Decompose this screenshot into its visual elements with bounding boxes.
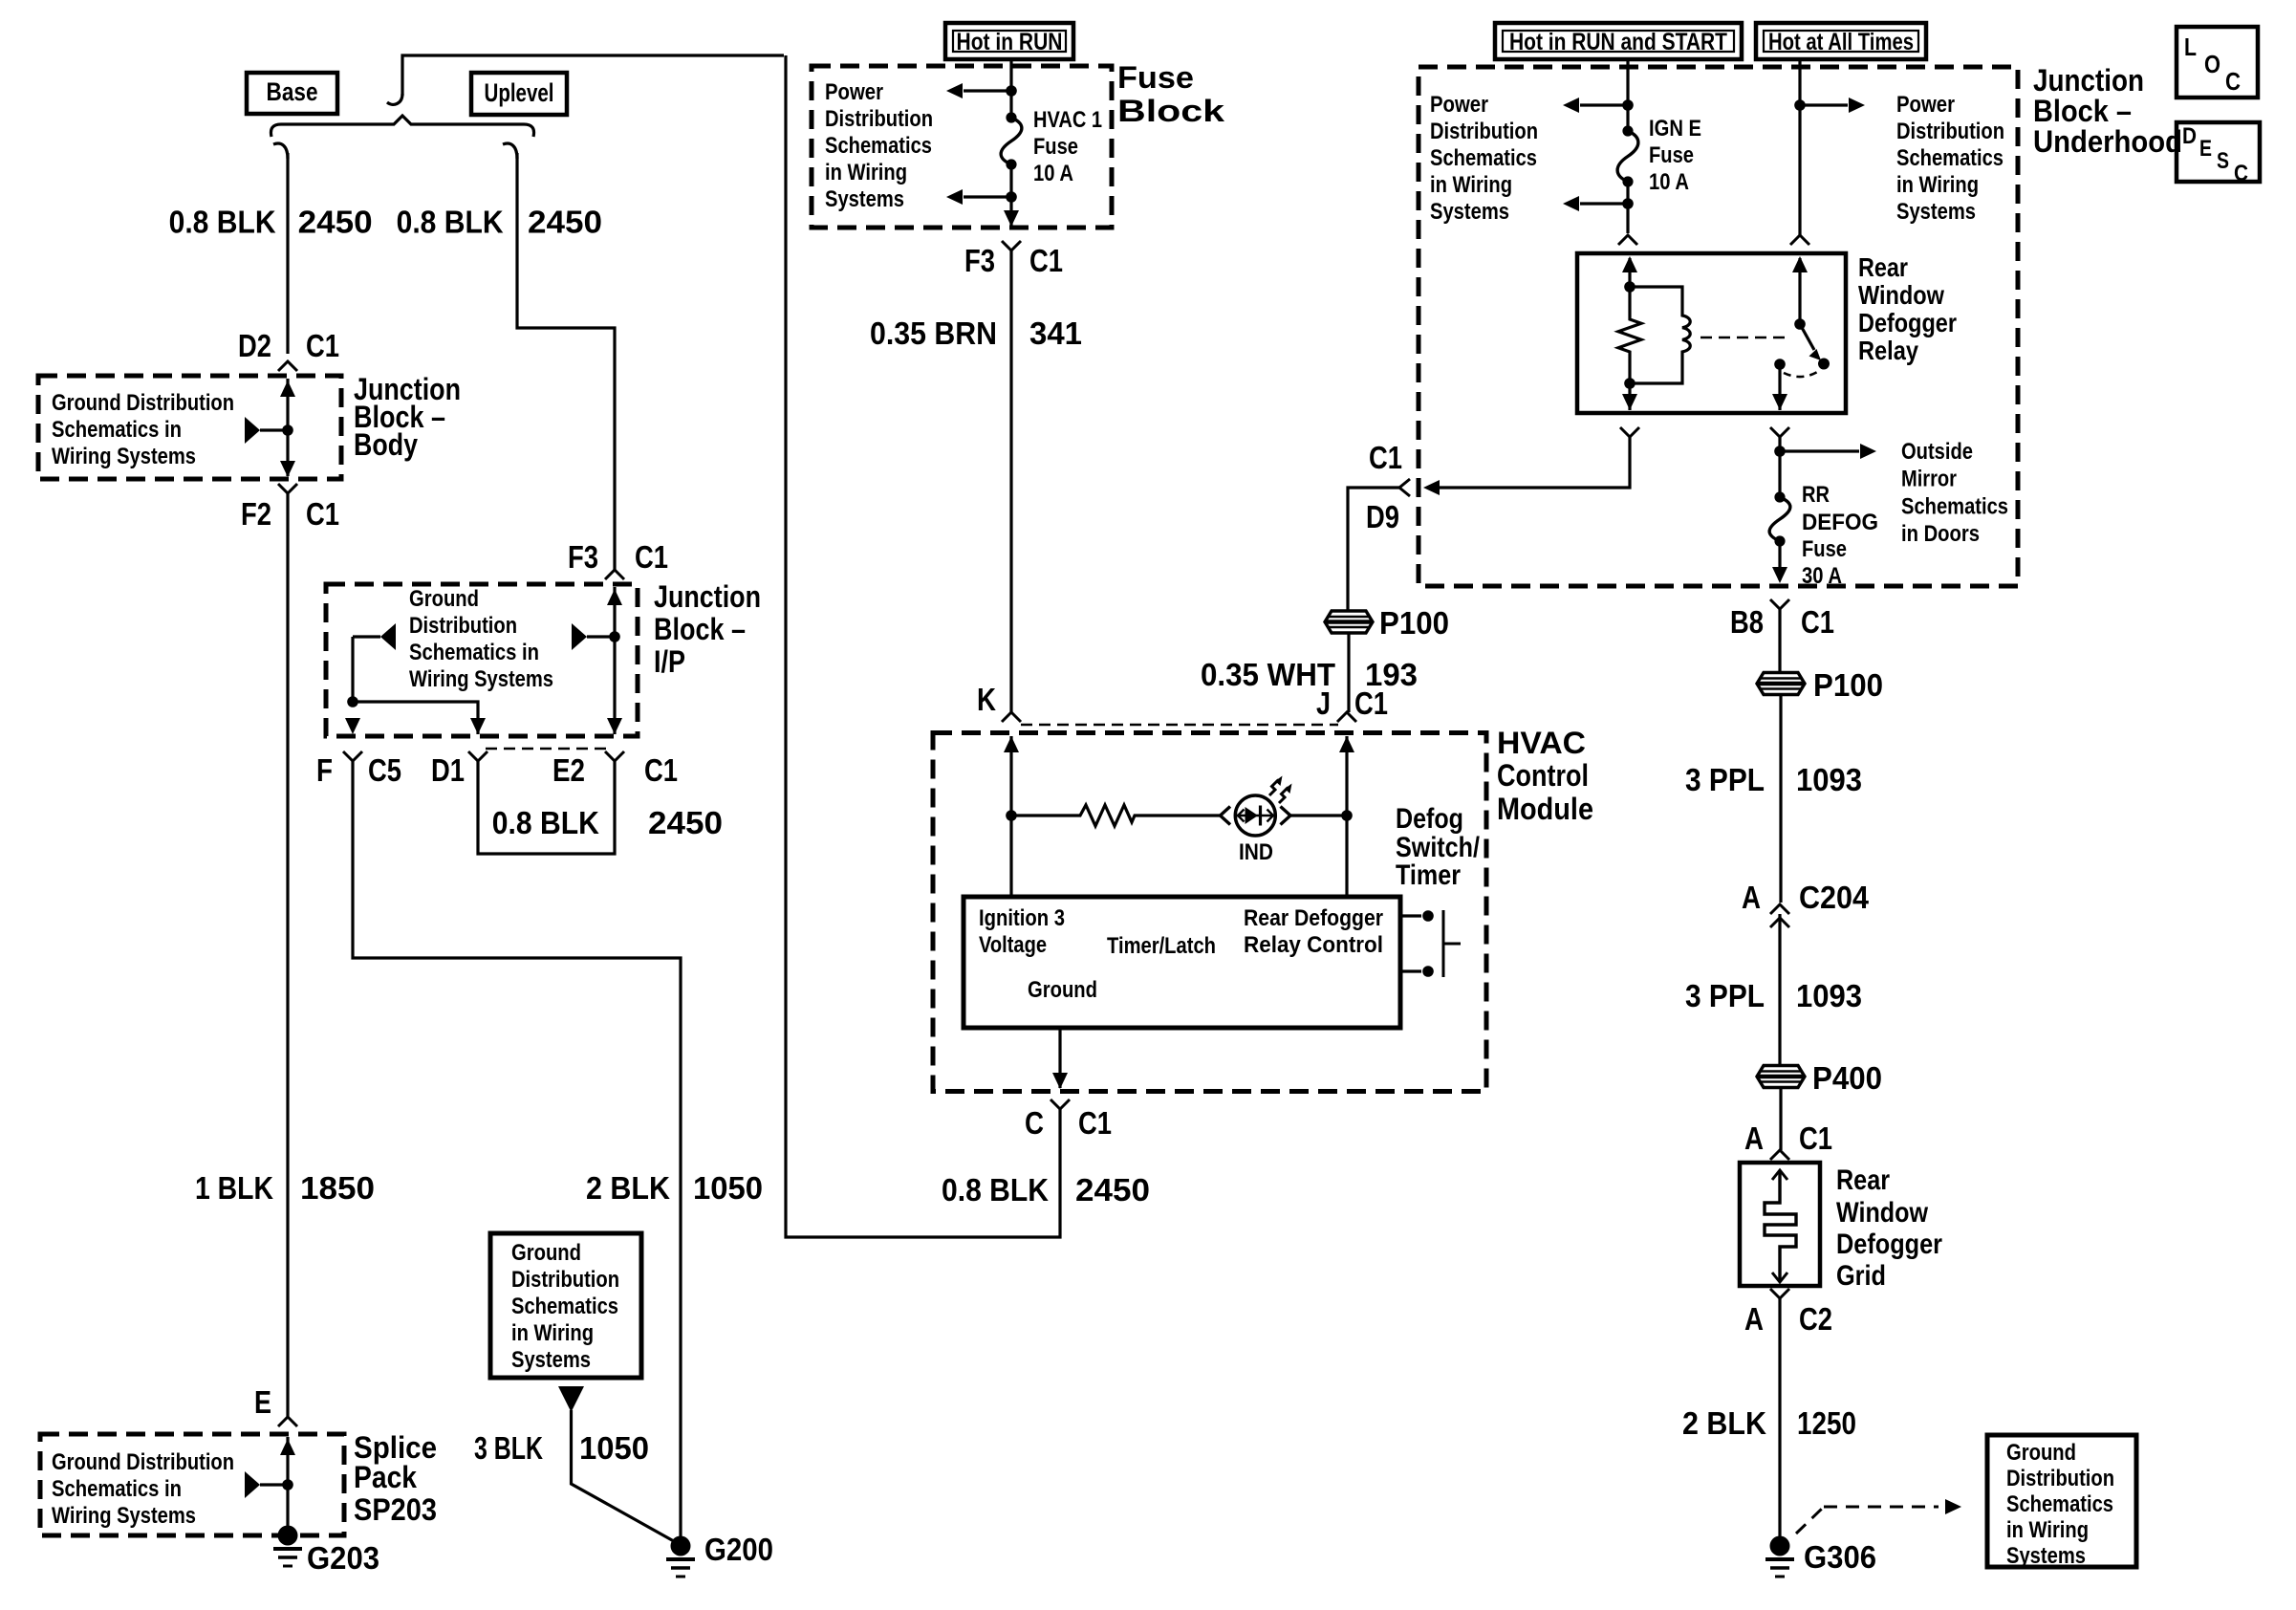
text: Power Distribution Schematics in Wiring Systems (fuse block) <box>825 79 933 212</box>
wire label 2 BLK (grid ground) <box>1682 1405 1766 1441</box>
junction dot HVAC left <box>1006 810 1017 821</box>
label Defog Switch/ Timer <box>1396 803 1481 891</box>
relay switch pivot dot <box>1794 318 1806 330</box>
svg-text:Schematics in: Schematics in <box>409 640 539 665</box>
triangle tap from reference box <box>558 1386 584 1412</box>
svg-text:P100: P100 <box>1379 605 1449 641</box>
svg-text:L: L <box>2184 33 2197 61</box>
svg-text:C1: C1 <box>1369 440 1402 475</box>
label Timer/Latch <box>1107 933 1216 959</box>
junction dot relay coil top <box>1624 281 1635 293</box>
svg-text:Systems: Systems <box>1430 199 1509 225</box>
svg-text:Ground: Ground <box>1028 977 1097 1003</box>
circuit number 2450 (Base drop) <box>298 205 373 240</box>
svg-text:Block –: Block – <box>654 612 746 646</box>
svg-text:Distribution: Distribution <box>2006 1466 2114 1491</box>
arrow up into I/P block <box>607 589 622 605</box>
pin F label <box>316 752 333 788</box>
connector chevron E2/C1 <box>605 751 624 761</box>
bus continuation funnel (splice pack) <box>245 1471 293 1498</box>
svg-text:in Wiring: in Wiring <box>1430 172 1512 198</box>
svg-text:F3: F3 <box>568 539 598 575</box>
label Rear Defogger Relay Control <box>1244 905 1383 958</box>
big label Junction Block - Underhood <box>2033 63 2182 159</box>
svg-text:D: D <box>2182 123 2197 149</box>
wire label 0.8 BLK (HVAC ground) <box>942 1172 1049 1207</box>
svg-text:Ground: Ground <box>2006 1440 2076 1466</box>
svg-text:10 A: 10 A <box>1033 161 1073 186</box>
svg-text:B8: B8 <box>1730 604 1764 640</box>
svg-text:Defog: Defog <box>1396 803 1463 835</box>
svg-text:P100: P100 <box>1813 667 1883 703</box>
wire label 0.35 WHT <box>1201 657 1335 692</box>
circuit number 2450 (Uplevel drop) <box>528 205 602 240</box>
connector chevron C1/D9 (underhood edge) <box>1399 479 1410 496</box>
svg-text:Fuse: Fuse <box>1117 60 1194 95</box>
svg-text:E: E <box>2199 136 2212 162</box>
svg-text:1850: 1850 <box>300 1170 375 1206</box>
svg-text:G203: G203 <box>307 1540 379 1576</box>
connector chevron K <box>1002 712 1021 722</box>
relay resistor <box>1618 287 1641 383</box>
wire: 1 BLK 1850 segment <box>286 493 289 1417</box>
pin F2 label <box>241 496 271 532</box>
circuit number 193 <box>1365 657 1418 692</box>
big label HVAC Control Module <box>1497 726 1593 826</box>
svg-text:2 BLK: 2 BLK <box>586 1170 670 1206</box>
wire: D1-E2 loop <box>478 761 615 854</box>
svg-text:Fuse: Fuse <box>1649 142 1694 168</box>
circuit number 1050 (3 BLK) <box>579 1430 649 1466</box>
wire: ignition 3 voltage inside HVAC <box>1009 736 1012 897</box>
bus continuation funnel (body block) <box>245 417 293 444</box>
svg-text:1050: 1050 <box>579 1430 649 1466</box>
svg-text:Window: Window <box>1858 280 1944 310</box>
arrow down out of I/P (F) <box>345 718 360 734</box>
connector chevron D2/C1 <box>278 361 297 371</box>
svg-text:Base: Base <box>267 77 318 106</box>
arrow to power distribution (underhood right) <box>1800 98 1865 113</box>
connector C1 label (HVAC ground) <box>1078 1105 1112 1141</box>
connector chevron (relay switch feed) <box>1790 235 1809 245</box>
svg-text:2450: 2450 <box>648 805 723 840</box>
switch contact stubs <box>1400 910 1461 977</box>
big label Junction Block - I/P <box>654 579 761 679</box>
svg-text:A: A <box>1744 1120 1764 1156</box>
junction block underhood dashed box <box>1419 67 2018 586</box>
ground G306 symbol <box>1765 1536 1794 1577</box>
fuse label HVAC 1 Fuse 10 A <box>1033 107 1102 186</box>
wire: Uplevel option drop segment <box>517 153 615 570</box>
svg-text:Rear: Rear <box>1858 252 1908 282</box>
svg-text:Block: Block <box>1117 94 1224 128</box>
svg-text:Distribution: Distribution <box>511 1267 619 1293</box>
label box Base <box>247 73 337 114</box>
pin F3 label (I/P) <box>568 539 598 575</box>
connector C1 label (underhood edge) <box>1369 440 1402 475</box>
svg-text:Grid: Grid <box>1836 1260 1886 1292</box>
big label Fuse Block <box>1117 60 1224 128</box>
svg-text:Body: Body <box>354 427 418 462</box>
svg-text:F2: F2 <box>241 496 271 532</box>
defog switch/timer inner box <box>964 897 1400 1028</box>
connector C1 label (HVAC top) <box>1354 685 1388 721</box>
header box Hot in RUN and START <box>1495 23 1742 59</box>
svg-text:C204: C204 <box>1799 880 1870 915</box>
junction block I/P dashed box <box>326 584 638 736</box>
indicator resistor <box>1011 805 1220 826</box>
svg-text:Distribution: Distribution <box>1896 119 2004 144</box>
svg-text:Mirror: Mirror <box>1901 467 1957 492</box>
relay coil output wire <box>1622 383 1637 410</box>
svg-text:D1: D1 <box>431 752 465 788</box>
wire: 0.8 BLK 2450 ground return <box>786 55 1060 1237</box>
svg-text:Schematics in: Schematics in <box>52 1476 182 1502</box>
label IND <box>1239 839 1273 865</box>
arrow down out of HVAC <box>1052 1073 1068 1089</box>
circuit number 1250 <box>1797 1405 1856 1441</box>
svg-text:E2: E2 <box>552 752 585 788</box>
connector chevron F/C5 <box>343 751 362 761</box>
svg-text:S: S <box>2217 148 2229 174</box>
wire label 3 PPL (upper) <box>1685 762 1765 797</box>
svg-text:Window: Window <box>1836 1197 1929 1229</box>
svg-text:Underhood: Underhood <box>2033 124 2182 159</box>
wire below IGN E fuse <box>1626 182 1629 233</box>
svg-text:D9: D9 <box>1366 499 1399 534</box>
svg-text:1250: 1250 <box>1797 1405 1856 1441</box>
svg-text:C: C <box>1025 1105 1044 1141</box>
connector C1 label (fuse block) <box>1029 243 1063 278</box>
wire: IGN E feed <box>1626 57 1629 131</box>
LED wire to J <box>1290 814 1347 816</box>
svg-text:Ground: Ground <box>511 1240 581 1266</box>
bulkhead connector P400 <box>1757 1066 1805 1088</box>
connector chevron D1 <box>468 751 487 761</box>
svg-text:1 BLK: 1 BLK <box>195 1170 273 1206</box>
label box Uplevel <box>471 73 567 115</box>
connector chevron below relay (switch out) <box>1770 427 1789 437</box>
option brace over Base/Uplevel wires <box>271 116 533 137</box>
svg-text:C: C <box>2225 67 2241 96</box>
svg-text:Outside: Outside <box>1901 439 1973 465</box>
svg-text:2450: 2450 <box>298 205 373 240</box>
svg-text:Rear Defogger: Rear Defogger <box>1244 905 1383 931</box>
svg-text:Schematics: Schematics <box>1901 493 2008 519</box>
indicator LED IND <box>1221 776 1292 837</box>
wire: 2 BLK 1250 to G306 <box>1778 1298 1781 1536</box>
ground G203 label <box>307 1540 379 1576</box>
svg-text:0.8 BLK: 0.8 BLK <box>169 205 276 240</box>
pin C label <box>1025 1105 1044 1141</box>
svg-text:Schematics in: Schematics in <box>52 417 182 443</box>
svg-text:C1: C1 <box>635 539 668 575</box>
arrow to power distribution (underhood left lower) <box>1563 196 1628 211</box>
relay switch travel arc <box>1784 371 1819 377</box>
wire: B8 to P100 <box>1778 609 1781 672</box>
svg-text:30 A: 30 A <box>1802 563 1842 589</box>
svg-text:2450: 2450 <box>528 205 602 240</box>
connector C1 label (E2 wire) <box>644 752 678 788</box>
arrow down out of fuse block <box>1004 210 1019 227</box>
wire label 2 BLK <box>586 1170 670 1206</box>
svg-text:Timer: Timer <box>1396 859 1461 891</box>
big label Splice Pack SP203 <box>354 1430 437 1527</box>
junction dot (fuse block top) <box>1006 85 1017 97</box>
wire: Hot in RUN feed <box>1009 57 1012 118</box>
svg-text:3 PPL: 3 PPL <box>1685 978 1765 1013</box>
svg-text:G200: G200 <box>704 1532 773 1567</box>
fuse HVAC 1 10A <box>1001 112 1022 169</box>
svg-text:Systems: Systems <box>1896 199 1976 225</box>
splice pack dashed box <box>40 1434 344 1535</box>
wire: 3 PPL 1093 lower <box>1778 914 1781 1066</box>
svg-text:C1: C1 <box>1354 685 1388 721</box>
connector chevron F3/C1 (I/P) <box>605 570 624 579</box>
svg-text:Schematics: Schematics <box>825 133 932 159</box>
connector chevron (relay coil feed) <box>1618 235 1637 245</box>
svg-text:C1: C1 <box>1078 1105 1112 1141</box>
svg-text:F3: F3 <box>964 243 995 278</box>
ground distribution reference box (mid) <box>490 1233 641 1378</box>
wire label 1 BLK <box>195 1170 273 1206</box>
hvac control module dashed box <box>933 733 1486 1092</box>
svg-text:D2: D2 <box>238 328 271 363</box>
pin A label (grid C1) <box>1744 1120 1764 1156</box>
svg-text:Systems: Systems <box>2006 1543 2086 1569</box>
svg-text:Timer/Latch: Timer/Latch <box>1107 933 1216 959</box>
circuit number 1850 <box>300 1170 375 1206</box>
pin F3 label (fuse block) <box>964 243 995 278</box>
svg-text:in Wiring: in Wiring <box>511 1320 594 1346</box>
junction dot (hot at all times) <box>1794 99 1806 111</box>
relay switch wire <box>1792 256 1808 324</box>
svg-text:C1: C1 <box>306 496 339 532</box>
svg-text:Schematics: Schematics <box>1430 145 1537 171</box>
arrow down out of I/P (D1) <box>470 718 486 734</box>
wire: 0.35 BRN 341 run <box>1009 250 1012 712</box>
svg-text:C2: C2 <box>1799 1301 1832 1337</box>
text: Power Distribution Schematics in Wiring Systems (underhood right) <box>1896 92 2004 225</box>
junction dot HVAC right <box>1341 810 1353 821</box>
wire label 0.8 BLK (D1-E2 loop) <box>492 805 599 840</box>
svg-text:Distribution: Distribution <box>825 106 933 132</box>
big label Junction Block - Body <box>354 372 461 462</box>
circuit number 2450 (HVAC ground) <box>1075 1172 1150 1207</box>
svg-text:IND: IND <box>1239 839 1273 865</box>
connector P100 label (0.35 WHT) <box>1379 605 1449 641</box>
junction dot I/P left <box>347 696 358 707</box>
svg-text:Power: Power <box>825 79 883 105</box>
relay switch arm <box>1800 324 1830 370</box>
dashed reference arrow to ground distribution box <box>1796 1499 1961 1534</box>
svg-text:E: E <box>254 1384 271 1420</box>
svg-text:Distribution: Distribution <box>409 613 517 639</box>
svg-text:1093: 1093 <box>1796 762 1862 797</box>
circuit number 1093 (lower) <box>1796 978 1862 1013</box>
svg-text:Module: Module <box>1497 792 1593 826</box>
svg-text:A: A <box>1744 1301 1764 1337</box>
big label Rear Window Defogger Relay <box>1858 252 1957 365</box>
wire: relay control to C1/D9 <box>1430 437 1630 488</box>
big label Rear Window Defogger Grid <box>1836 1164 1942 1292</box>
header box Hot at All Times <box>1756 23 1926 59</box>
bus continuation funnel (I/P left) <box>353 623 396 650</box>
connector P100 label (3 PPL) <box>1813 667 1883 703</box>
arrow left at underhood edge <box>1423 480 1440 495</box>
svg-text:Systems: Systems <box>511 1347 591 1373</box>
circuit number 1050 <box>693 1170 763 1206</box>
svg-text:K: K <box>977 682 996 717</box>
svg-text:DEFOG: DEFOG <box>1802 510 1878 535</box>
svg-text:Pack: Pack <box>354 1460 417 1494</box>
svg-text:Relay: Relay <box>1858 336 1918 365</box>
rear window defogger relay box <box>1577 253 1846 413</box>
svg-text:C1: C1 <box>1799 1120 1832 1156</box>
svg-text:Block –: Block – <box>2033 94 2132 128</box>
wire: 3 BLK 1050 to G200 <box>572 1410 682 1545</box>
arrow up into splice pack <box>280 1439 295 1455</box>
wire: F/C5 ground run to G200 <box>353 761 681 1536</box>
svg-text:Ignition 3: Ignition 3 <box>979 905 1065 931</box>
svg-text:P400: P400 <box>1812 1060 1882 1096</box>
wire: 3 PPL 1093 upper <box>1779 695 1782 903</box>
svg-text:Defogger: Defogger <box>1858 308 1957 337</box>
wire: Base option drop segment <box>286 153 289 354</box>
junction dot (IGN E top) <box>1622 99 1634 111</box>
connector chevron below relay (control) <box>1620 427 1639 437</box>
fuse RR DEFOG 30A <box>1769 491 1790 546</box>
wire inside splice pack <box>286 1437 289 1535</box>
svg-text:1093: 1093 <box>1796 978 1862 1013</box>
wire label 3 BLK <box>474 1430 543 1466</box>
svg-text:in Wiring: in Wiring <box>1896 172 1979 198</box>
connector C1 label (body block) <box>306 328 339 363</box>
arrow to outside mirror schematics <box>1780 444 1876 459</box>
arrow down out of I/P (E2) <box>607 718 622 734</box>
connector C1 label (grid) <box>1799 1120 1832 1156</box>
svg-text:0.8 BLK: 0.8 BLK <box>397 205 504 240</box>
junction dot (outside mirror tap) <box>1774 446 1786 457</box>
ground G200 label <box>704 1532 773 1567</box>
svg-text:341: 341 <box>1029 315 1082 351</box>
svg-text:RR: RR <box>1802 482 1830 508</box>
dashed tie D1-E2 <box>486 748 606 751</box>
wire label 3 PPL (lower) <box>1685 978 1765 1013</box>
svg-text:Schematics: Schematics <box>511 1294 618 1319</box>
label Ignition 3 Voltage <box>979 905 1065 958</box>
pin D2 label <box>238 328 271 363</box>
arrow down out of body block <box>280 461 295 477</box>
inline connector C204 double chevron <box>1770 904 1789 927</box>
wire: P400 to grid <box>1779 1088 1782 1150</box>
svg-text:Ground Distribution: Ground Distribution <box>52 390 234 416</box>
pin E2 label <box>552 752 585 788</box>
svg-text:Rear: Rear <box>1836 1164 1890 1196</box>
grid element <box>1765 1170 1796 1282</box>
ground G306 label <box>1804 1539 1876 1575</box>
svg-text:A: A <box>1742 880 1761 915</box>
connector chevron A/C1 (grid) <box>1770 1150 1789 1160</box>
svg-text:1050: 1050 <box>693 1170 763 1206</box>
svg-text:3 BLK: 3 BLK <box>474 1430 543 1466</box>
arrow up into HVAC (J) <box>1339 736 1354 752</box>
svg-text:C: C <box>2234 161 2248 186</box>
svg-text:HVAC 1: HVAC 1 <box>1033 107 1102 133</box>
svg-text:HVAC: HVAC <box>1497 726 1586 760</box>
svg-text:in Wiring: in Wiring <box>2006 1517 2089 1543</box>
wire: defog relay control inside HVAC <box>1345 736 1348 897</box>
arrow to power distribution (fuse block lower) <box>946 189 1011 205</box>
fuse block dashed box <box>812 66 1112 228</box>
svg-text:Control: Control <box>1497 758 1589 793</box>
circuit number 341 <box>1029 315 1082 351</box>
pin A label (C2) <box>1744 1301 1764 1337</box>
pin J label <box>1316 685 1331 721</box>
text: Ground Distribution Schematics in Wiring Systems (splice pack) <box>52 1449 234 1529</box>
connector C1 label (I/P) <box>635 539 668 575</box>
pin B8 label <box>1730 604 1764 640</box>
svg-text:O: O <box>2204 50 2220 78</box>
junction block body dashed box <box>38 376 341 479</box>
wire label 0.8 BLK (Uplevel drop) <box>397 205 504 240</box>
relay coil-side wire <box>1628 258 1631 287</box>
svg-text:Schematics: Schematics <box>2006 1491 2113 1517</box>
text: Ground Distribution Schematics in Wiring Systems (body block) <box>52 390 234 469</box>
pin K label <box>977 682 996 717</box>
svg-text:in Wiring: in Wiring <box>825 160 907 185</box>
svg-text:Wiring Systems: Wiring Systems <box>52 1503 196 1529</box>
wire: 0.35 WHT below P100 <box>1347 633 1350 712</box>
circuit number 1093 (upper) <box>1796 762 1862 797</box>
wire: Uplevel option drop curl <box>503 143 517 159</box>
svg-text:G306: G306 <box>1804 1539 1876 1575</box>
svg-text:0.35 BRN: 0.35 BRN <box>870 315 997 351</box>
arrow up into body block <box>280 381 295 397</box>
connector chevron F3/C1 (fuse block) <box>1002 241 1021 250</box>
label Ground <box>1028 977 1097 1003</box>
arrow down out of underhood box <box>1772 567 1787 583</box>
relay coil <box>1630 287 1690 383</box>
bulkhead connector P100 (0.35 WHT) <box>1325 611 1373 633</box>
svg-text:Ground Distribution: Ground Distribution <box>52 1449 234 1475</box>
junction dot (IGN E lower) <box>1622 198 1634 209</box>
wire: Hot at All Times feed <box>1798 57 1801 235</box>
connector C1 label (below body block) <box>306 496 339 532</box>
relay switch contact dot <box>1774 359 1786 370</box>
junction dot (fuse block lower) <box>1006 191 1017 203</box>
svg-text:Wiring Systems: Wiring Systems <box>409 666 553 692</box>
svg-text:Hot in RUN: Hot in RUN <box>957 29 1063 55</box>
fuse label RR DEFOG Fuse 30 A <box>1802 482 1878 589</box>
pin D9 label <box>1366 499 1399 534</box>
pin A label (C204) <box>1742 880 1761 915</box>
junction dot relay coil bottom <box>1624 378 1635 389</box>
svg-text:0.35 WHT: 0.35 WHT <box>1201 657 1335 692</box>
svg-text:Voltage: Voltage <box>979 932 1047 958</box>
wire inside I/P block (F3 to E2) <box>613 587 616 734</box>
svg-text:Fuse: Fuse <box>1033 134 1078 160</box>
fuse label IGN E Fuse 10 A <box>1649 116 1701 195</box>
connector chevron A/C2 <box>1770 1289 1789 1298</box>
bus continuation funnel (I/P right) <box>572 623 620 650</box>
text: Outside Mirror Schematics in Doors <box>1901 439 2008 547</box>
DESC reference box <box>2177 122 2260 186</box>
LOC reference box <box>2177 27 2258 98</box>
wire: 0.35 WHT 193 run <box>1348 488 1399 611</box>
wire label 0.8 BLK (Base drop) <box>169 205 276 240</box>
wire below fuse <box>1009 164 1012 226</box>
